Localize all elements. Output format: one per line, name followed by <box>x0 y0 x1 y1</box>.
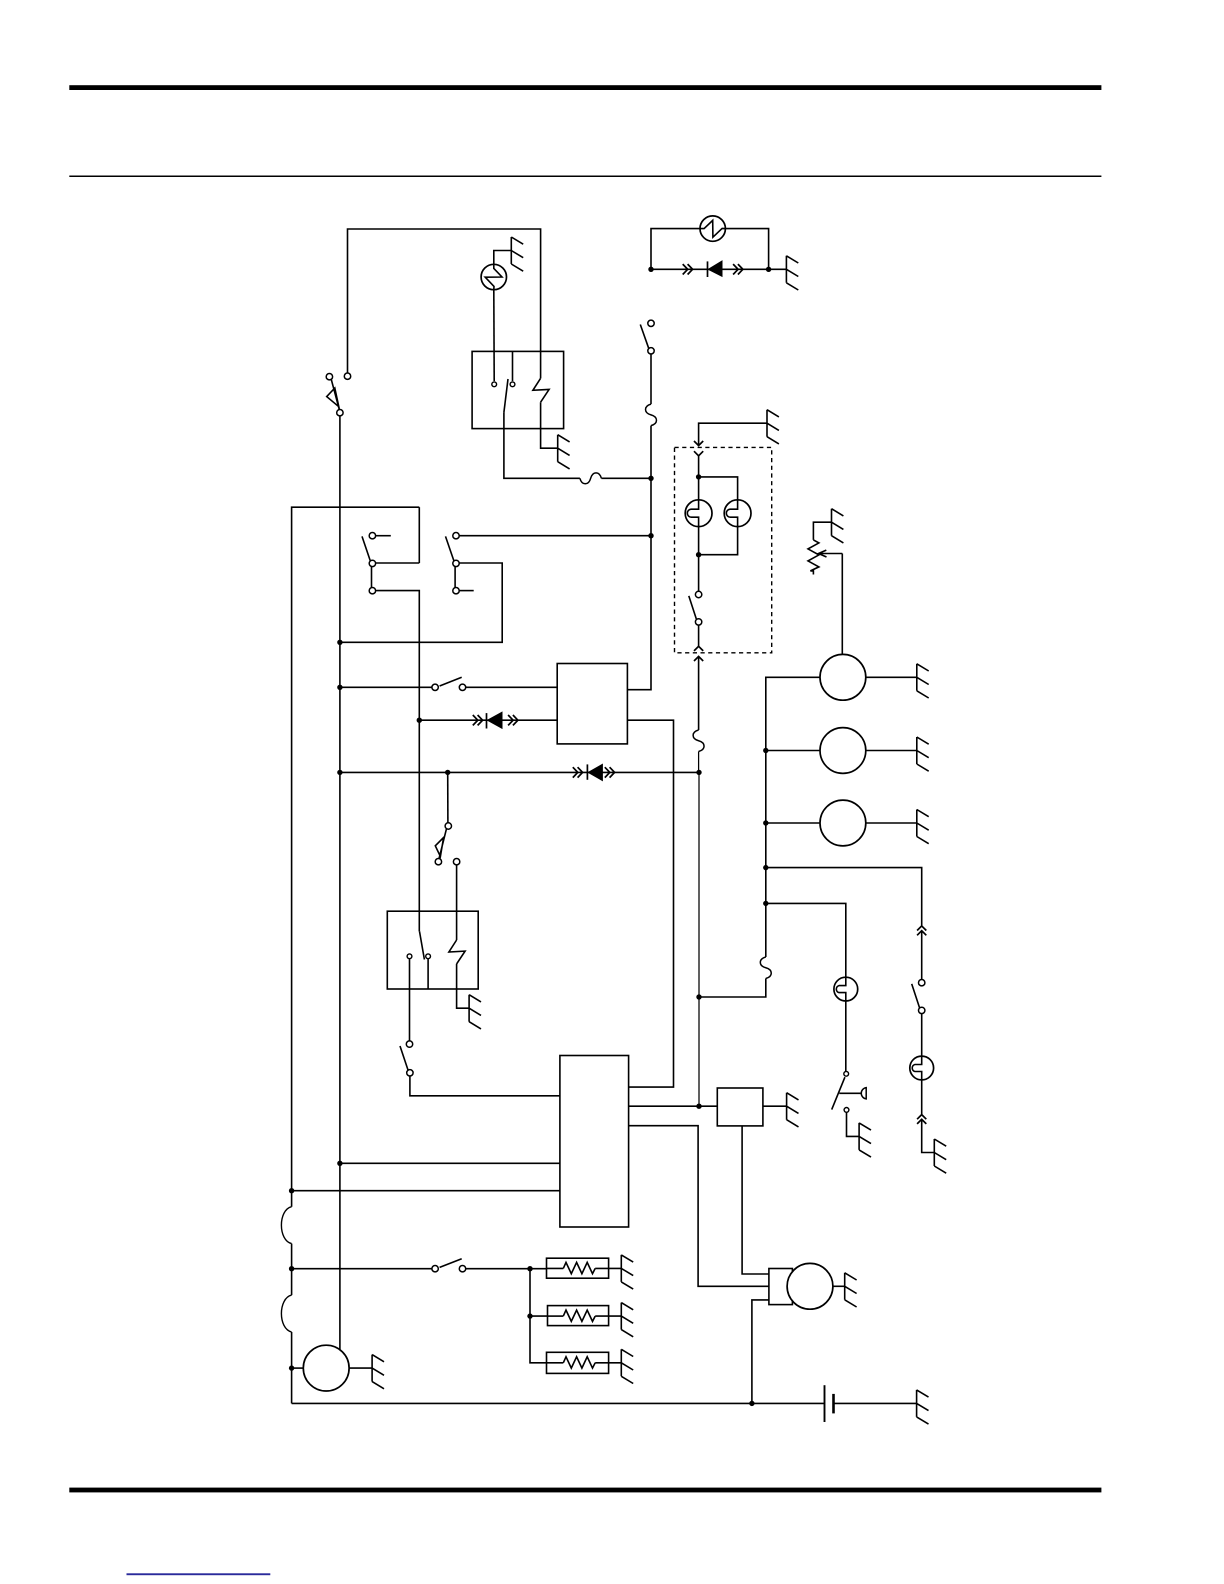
junction <box>696 474 701 479</box>
switch SW4 stub <box>459 590 473 592</box>
wire <box>698 656 700 730</box>
wire <box>457 964 470 1008</box>
switch SW10 blade <box>440 1259 462 1268</box>
wire <box>922 1119 935 1152</box>
wire (to horn lamp) <box>766 903 846 977</box>
battery plate - <box>832 1394 835 1414</box>
wire (coil feed) <box>456 865 458 940</box>
wire <box>466 1268 547 1270</box>
ground <box>621 1255 633 1289</box>
wire <box>418 507 420 563</box>
relay K1 terminal stub <box>512 351 514 381</box>
ground <box>511 237 523 271</box>
wire <box>493 290 495 381</box>
relay K1 box <box>472 351 563 428</box>
switch SW2 blade <box>640 325 648 349</box>
wire <box>833 1285 845 1287</box>
relay K1 terminals <box>492 382 497 387</box>
wire <box>291 1244 293 1296</box>
relay K1 contact blade <box>504 379 508 412</box>
ground <box>917 1390 929 1424</box>
ground <box>767 410 779 444</box>
wire (control output to x=673.5) <box>627 720 673 1087</box>
diode D3 <box>586 764 588 779</box>
fuse <box>760 957 771 979</box>
fuse <box>693 730 704 752</box>
wire <box>530 1315 548 1317</box>
wire <box>921 931 923 980</box>
horn <box>303 1345 349 1391</box>
wire <box>866 676 917 678</box>
junction <box>696 1104 701 1109</box>
wire <box>601 477 651 479</box>
wire (input from x=339.9) <box>340 1162 560 1164</box>
wire <box>766 822 820 824</box>
connector chevrons <box>605 767 610 777</box>
switch SW5 terminals <box>432 684 438 690</box>
connector chevrons <box>573 767 578 777</box>
junction <box>648 267 653 272</box>
starter relay box <box>717 1088 763 1126</box>
key switch SW6 terminals <box>445 823 451 829</box>
wire (ECU output to starter S) <box>629 1126 769 1287</box>
starter motor <box>787 1263 833 1309</box>
switch SW5 blade <box>440 677 462 686</box>
switch SW8 blade <box>689 596 697 620</box>
resistor R2 box <box>548 1306 609 1326</box>
wire <box>340 771 699 773</box>
wire <box>769 268 787 270</box>
wire <box>494 251 512 265</box>
horn switch terminals <box>844 1071 849 1076</box>
fuse <box>646 404 657 426</box>
lamp L2 <box>724 500 751 527</box>
switch SW10 terminals <box>432 1266 438 1272</box>
relay K2 terminal stub <box>427 959 429 989</box>
motor M1 <box>820 654 866 700</box>
connector (male) <box>694 646 703 651</box>
wire <box>650 354 652 404</box>
junction <box>763 748 768 753</box>
junction <box>417 718 422 723</box>
wire <box>698 456 700 500</box>
switch SW4 link <box>454 567 456 588</box>
connector chevrons <box>473 715 478 725</box>
top thin rule <box>69 176 1101 178</box>
resistor R2 <box>548 1315 564 1317</box>
resistor R3 box <box>547 1352 609 1373</box>
lamp L4 <box>834 977 858 1001</box>
horn button actuator <box>839 1092 860 1094</box>
motor M2 <box>820 728 866 774</box>
wire <box>292 1268 432 1270</box>
junction <box>763 901 768 906</box>
connector (male) <box>917 1115 926 1120</box>
wire <box>541 402 558 448</box>
rheostat wiper arrow <box>819 550 843 557</box>
resistor R1 box <box>547 1258 609 1278</box>
ground <box>845 1273 857 1307</box>
wire <box>866 750 917 752</box>
wire (left frame) <box>292 507 420 1206</box>
wire <box>841 554 843 655</box>
ground <box>934 1139 946 1173</box>
wire <box>376 562 420 564</box>
wire <box>813 522 831 540</box>
switch SW7 blade <box>400 1046 408 1070</box>
footer link underline <box>127 1573 271 1575</box>
junction <box>648 476 653 481</box>
ground <box>859 1123 871 1157</box>
wire <box>847 1113 860 1137</box>
ground <box>372 1355 384 1389</box>
junction <box>289 1188 294 1193</box>
lamp L1 <box>685 500 712 527</box>
switch SW8 terminals <box>695 591 701 597</box>
junction <box>766 267 771 272</box>
switch SW3 blade <box>362 536 371 561</box>
connector (female) <box>917 931 926 936</box>
resistor R1 <box>547 1267 564 1269</box>
wire <box>459 535 651 537</box>
diode D1 <box>707 261 709 277</box>
wire <box>699 979 766 998</box>
junction <box>749 1401 754 1406</box>
wire <box>866 822 917 824</box>
relay K2 terminals <box>407 954 412 959</box>
wire <box>376 591 420 932</box>
wire <box>651 229 769 270</box>
connector chevrons <box>508 715 513 725</box>
switch SW4 blade <box>446 536 455 561</box>
wire (diode row) <box>651 268 769 270</box>
relay K2 box <box>387 911 478 989</box>
junction <box>648 533 653 538</box>
wire <box>340 563 502 642</box>
switch SW9 blade <box>912 984 920 1008</box>
ground <box>621 1303 633 1337</box>
relay K2 coil <box>449 940 465 964</box>
switch SW3 stub <box>376 535 391 537</box>
junction <box>289 1365 294 1370</box>
wire <box>921 1080 923 1115</box>
junction <box>337 1161 342 1166</box>
switch SW7 terminals <box>406 1041 412 1047</box>
wire <box>699 423 767 445</box>
wire <box>410 1076 560 1096</box>
relay K1 coil wire <box>540 351 542 378</box>
wire (relay K1 output) <box>504 412 580 478</box>
wire <box>921 1014 923 1057</box>
switch SW9 terminals <box>919 980 925 986</box>
circuit breaker <box>281 1295 291 1332</box>
ECU box <box>560 1056 629 1228</box>
junction <box>337 640 342 645</box>
switch SW2 terminals <box>648 320 654 326</box>
bottom thick rule <box>69 1488 1101 1493</box>
wire (motor bus) <box>766 677 820 957</box>
junction <box>696 552 701 557</box>
junction <box>337 770 342 775</box>
junction <box>527 1266 532 1271</box>
connector (male) <box>917 926 926 931</box>
connector chevrons <box>683 264 688 274</box>
wire (battery bus) <box>292 1402 825 1404</box>
motor M3 <box>820 800 866 846</box>
ground <box>917 737 929 771</box>
wire <box>766 750 820 752</box>
circuit breaker <box>281 1207 291 1244</box>
junction <box>289 1266 294 1271</box>
wire (input from x=291.6) <box>292 1190 560 1192</box>
wire <box>834 1402 917 1404</box>
junction <box>337 685 342 690</box>
relay K1 coil <box>533 378 549 402</box>
wire <box>530 1269 547 1363</box>
ground <box>787 1093 799 1127</box>
wire <box>466 686 558 688</box>
key switch SW6 blade <box>435 829 446 859</box>
horn button cap <box>861 1088 866 1099</box>
wire <box>698 625 700 646</box>
top thick rule <box>69 85 1101 90</box>
wire <box>291 1332 293 1403</box>
wire (starter to battery bus) <box>752 1300 769 1404</box>
ground <box>917 810 929 844</box>
junction <box>763 865 768 870</box>
ground <box>917 664 929 698</box>
diode D2 <box>486 713 488 728</box>
wire <box>627 426 651 690</box>
ground <box>786 256 798 290</box>
ground <box>621 1349 633 1383</box>
wire (thin run to ECU row) <box>698 752 700 1107</box>
connector (female) <box>917 1119 926 1124</box>
switch SW4 terminals <box>453 533 459 539</box>
switch SW3 link <box>371 567 373 588</box>
dashed housing <box>675 447 772 652</box>
wire (main left bus x=339.9) <box>339 416 341 1349</box>
ground <box>558 435 570 469</box>
junction <box>445 770 450 775</box>
wire (relay to starter B) <box>742 1126 769 1274</box>
wire <box>348 229 541 373</box>
wire <box>845 1001 847 1071</box>
wire <box>349 1367 372 1369</box>
rheostat <box>808 540 819 575</box>
ground <box>469 995 481 1029</box>
junction <box>696 994 701 999</box>
horn button blade <box>832 1077 845 1109</box>
wire (ECU output to starter relay) <box>629 1105 718 1107</box>
wire <box>698 527 700 592</box>
key switch SW1 terminals <box>326 374 332 380</box>
flasher unit F2 <box>700 216 725 241</box>
connector (male) <box>694 441 703 446</box>
control unit box <box>557 664 627 744</box>
wire <box>409 959 411 1041</box>
connector (female) <box>694 656 703 661</box>
connector chevrons <box>733 264 738 274</box>
junction <box>696 770 701 775</box>
junction <box>763 820 768 825</box>
lamp L3 <box>910 1056 934 1080</box>
battery plate + <box>824 1385 826 1422</box>
resistor R3 <box>547 1362 564 1364</box>
wire <box>699 527 738 555</box>
fuse <box>580 473 602 484</box>
wire <box>447 772 449 822</box>
relay K2 contact blade <box>420 931 425 959</box>
wire <box>419 719 557 721</box>
switch SW3 terminals <box>369 533 375 539</box>
ground <box>832 509 844 543</box>
key switch SW1 blade <box>327 380 340 410</box>
connector (female) <box>694 451 703 456</box>
starter solenoid box <box>769 1269 793 1305</box>
wire <box>340 686 432 688</box>
wire (to connector chain) <box>766 868 922 926</box>
wire (branch to lamp 2) <box>699 477 738 500</box>
flasher unit F1 <box>481 264 506 289</box>
junction <box>527 1313 532 1318</box>
wire <box>292 1367 304 1369</box>
wire <box>763 1105 787 1107</box>
